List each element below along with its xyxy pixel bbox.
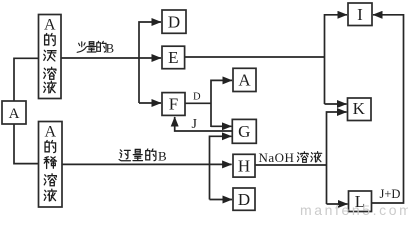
label 少量的B bbox=[77, 41, 114, 55]
svg-text:E: E bbox=[168, 48, 178, 67]
wire A1 up-elbow to concentrated box bbox=[14, 58, 39, 101]
svg-text:H: H bbox=[238, 156, 250, 175]
wire right vertical up into I bbox=[325, 15, 348, 104]
wire lower right vertical into L bbox=[327, 203, 348, 205]
wire branch down into F bbox=[139, 102, 161, 104]
svg-text:A: A bbox=[9, 106, 20, 122]
wire junction down into G upper bbox=[211, 125, 231, 127]
wire A1 down-elbow to dilute box bbox=[14, 124, 39, 164]
svg-text:D: D bbox=[168, 12, 180, 31]
box G bbox=[232, 119, 256, 143]
box D1 top bbox=[162, 10, 186, 33]
svg-text:A: A bbox=[44, 16, 56, 33]
svg-text:J: J bbox=[192, 117, 198, 132]
label NaOH 溶液 bbox=[259, 150, 322, 165]
wire J from G into F bottom bbox=[175, 117, 232, 131]
box K bbox=[348, 98, 372, 121]
wire right vertical into K upper bbox=[325, 103, 347, 105]
box H bbox=[233, 154, 255, 177]
box I bbox=[348, 3, 372, 26]
svg-text:B: B bbox=[158, 149, 167, 164]
wire main bottom: dilute solution to H (过量的B) bbox=[62, 163, 232, 165]
svg-text:A: A bbox=[44, 124, 56, 141]
box F bbox=[162, 93, 185, 116]
box D2 bottom bbox=[233, 188, 255, 210]
svg-text:I: I bbox=[357, 5, 363, 24]
box A2 bbox=[233, 68, 256, 91]
label 过量的B bbox=[119, 149, 167, 164]
box L bbox=[349, 191, 372, 212]
wire lower right vertical up into K lower bbox=[327, 112, 347, 204]
wire L right J+D up into I bbox=[372, 15, 404, 203]
svg-text:A: A bbox=[238, 71, 251, 90]
svg-text:NaOH: NaOH bbox=[259, 150, 295, 165]
box E bbox=[162, 46, 185, 68]
wire NaOH line from H to lower right vertical bbox=[255, 164, 327, 166]
wire junction up into A2 bbox=[211, 80, 232, 127]
svg-text:F: F bbox=[169, 95, 178, 114]
svg-text:G: G bbox=[238, 122, 250, 141]
wire E to right vertical bbox=[185, 56, 325, 58]
svg-text:D: D bbox=[238, 190, 250, 209]
wire bottom branch up into G lower bbox=[210, 136, 232, 199]
wire bottom branch down into D2 bbox=[210, 199, 233, 201]
wire main top: concentrated solution to E (少量的B) bbox=[61, 57, 161, 59]
svg-text:D: D bbox=[193, 92, 201, 103]
svg-text:B: B bbox=[106, 42, 114, 56]
wire F right with D label bbox=[185, 102, 211, 104]
box A1 far left bbox=[2, 101, 26, 124]
svg-text:J+D: J+D bbox=[380, 187, 401, 201]
svg-text:K: K bbox=[353, 99, 366, 118]
box dilute solution of A bbox=[39, 122, 63, 208]
wire branch up to D1 bbox=[139, 22, 161, 103]
svg-text:manfen5.com: manfen5.com bbox=[300, 202, 408, 216]
box concentrated solution of A bbox=[39, 15, 62, 99]
